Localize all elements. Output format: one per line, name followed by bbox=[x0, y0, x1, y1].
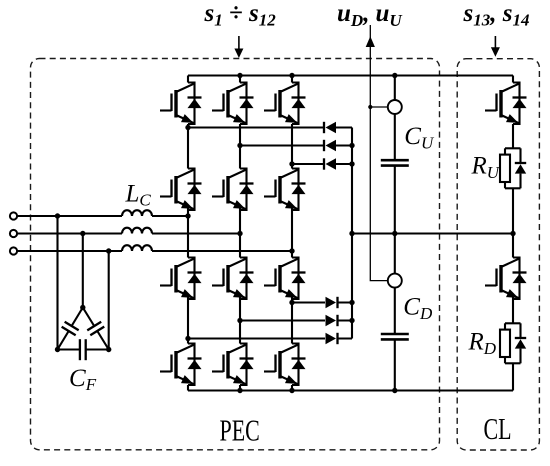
arrow s1-s12 control input bbox=[234, 36, 243, 58]
node phase3 / leg3 bbox=[289, 248, 294, 253]
capacitor C_D bbox=[381, 334, 409, 339]
wire clamp row lower-2 bbox=[240, 319, 352, 321]
node clamp vertical r2 bbox=[349, 143, 354, 148]
node leg3 lower clamp bbox=[289, 300, 294, 305]
clamp diode Dc3 bbox=[324, 158, 336, 169]
node clamp vertical r3 bbox=[349, 161, 354, 166]
wire clamp row upper-3 bbox=[292, 163, 352, 165]
voltmeter probe for u_D bbox=[388, 274, 402, 288]
svg-text:CU: CU bbox=[404, 123, 435, 152]
antiparallel diode of T4 bbox=[188, 184, 202, 195]
node phase1 / leg1 bbox=[185, 213, 190, 218]
svg-text:s1 ÷ s12: s1 ÷ s12 bbox=[204, 0, 277, 30]
clamp diode Dc6 bbox=[326, 333, 338, 344]
wire clamp row upper-1 bbox=[188, 126, 352, 128]
antiparallel diode of T13 bbox=[513, 98, 527, 109]
wire C_F tap phase 3 bbox=[108, 251, 110, 350]
transistor T13 (IGBT) bbox=[485, 83, 520, 125]
wire DC midpoint bus bbox=[352, 232, 513, 234]
antiparallel diode of T5 bbox=[240, 184, 254, 195]
clamp diode Dc5 bbox=[326, 315, 338, 326]
transistor T8 (IGBT) bbox=[212, 258, 247, 300]
wire phase 3 line bbox=[17, 250, 292, 252]
node phase3 / C_F tap bbox=[106, 248, 111, 253]
wire phase 1 line bbox=[17, 215, 188, 217]
wire C_D branch bbox=[394, 234, 396, 391]
input terminal phase 1 bbox=[10, 212, 17, 219]
node clamp vertical r5 bbox=[349, 318, 354, 323]
svg-text:CF: CF bbox=[69, 365, 97, 394]
transistor T5 (IGBT) bbox=[212, 169, 247, 211]
parallel diode of R_U bbox=[515, 148, 526, 188]
node midpoint bus / CL leg bbox=[510, 231, 515, 236]
input terminal phase 3 bbox=[10, 247, 17, 254]
parallel diode of R_D bbox=[515, 323, 526, 363]
antiparallel diode of T12 bbox=[292, 359, 306, 370]
node C_F right corner bbox=[106, 347, 111, 352]
clamp diode Dc1 bbox=[324, 122, 336, 133]
node bottom rail / leg2 bbox=[237, 388, 242, 393]
clamp diode Dc2 bbox=[324, 140, 336, 151]
node measurement tap bbox=[368, 105, 372, 109]
wire clamp-diode vertical bbox=[351, 128, 353, 339]
node top rail / leg3 bbox=[289, 73, 294, 78]
svg-text:RU: RU bbox=[471, 153, 501, 182]
transistor T4 (IGBT) bbox=[160, 169, 195, 211]
clamp diode Dc4 bbox=[326, 297, 338, 308]
wire inverter leg 2 vertical segments bbox=[239, 76, 241, 391]
node leg1 lower clamp bbox=[185, 336, 190, 341]
node C_F apex bbox=[80, 305, 85, 310]
node phase1 / C_F tap bbox=[55, 213, 60, 218]
node bottom rail / leg3 bbox=[289, 388, 294, 393]
svg-text:CL: CL bbox=[484, 411, 512, 445]
node C_F left corner bbox=[55, 347, 60, 352]
node leg2 upper clamp bbox=[237, 143, 242, 148]
inductor L_C phase 2 bbox=[122, 228, 152, 234]
node leg3 upper clamp bbox=[289, 161, 294, 166]
transistor T12 (IGBT) bbox=[264, 344, 299, 386]
wire C_F tap phase 2 bbox=[82, 234, 84, 308]
arrow for u_D u_U output bbox=[366, 36, 375, 47]
antiparallel diode of T10 bbox=[188, 359, 202, 370]
node midpoint bus / cap branch bbox=[392, 231, 397, 236]
wire clamp row lower-3 bbox=[188, 337, 352, 339]
svg-text:RD: RD bbox=[468, 329, 497, 358]
capacitor C_F bottom (delta base) bbox=[58, 339, 109, 360]
node clamp vertical mid bbox=[349, 231, 354, 236]
transistor T11 (IGBT) bbox=[212, 344, 247, 386]
wire clamp row lower-1 bbox=[292, 301, 352, 303]
capacitor C_F left (delta side) bbox=[58, 308, 83, 350]
node phase2 / C_F tap bbox=[80, 231, 85, 236]
antiparallel diode of T11 bbox=[240, 359, 254, 370]
resistor R_D bbox=[500, 323, 521, 363]
wire voltage measurement line bbox=[370, 25, 388, 281]
inductor L_C phase 1 bbox=[122, 210, 152, 216]
svg-text:PEC: PEC bbox=[220, 413, 260, 447]
svg-text:LC: LC bbox=[125, 181, 152, 210]
transistor T2 (IGBT) bbox=[212, 83, 247, 125]
wire DC positive top rail bbox=[188, 74, 513, 76]
wire inverter leg 3 vertical segments bbox=[291, 76, 293, 391]
PEC converter boundary box bbox=[31, 59, 440, 450]
antiparallel diode of T7 bbox=[188, 273, 202, 284]
capacitor C_U bbox=[381, 160, 409, 165]
antiparallel diode of T6 bbox=[292, 184, 306, 195]
antiparallel diode of T14 bbox=[513, 273, 527, 284]
CL clamping-leg boundary box bbox=[457, 59, 539, 450]
wire C_F tap phase 1 bbox=[56, 216, 58, 350]
wire clamp row upper-2 bbox=[240, 144, 352, 146]
capacitor C_F right (delta side) bbox=[83, 308, 109, 350]
input terminal phase 2 bbox=[10, 230, 17, 237]
transistor T9 (IGBT) bbox=[264, 258, 299, 300]
arrow s13-s14 control input bbox=[491, 36, 500, 57]
node phase2 / leg2 bbox=[237, 231, 242, 236]
node leg2 lower clamp bbox=[237, 318, 242, 323]
node bottom rail / C_D bbox=[392, 388, 397, 393]
transistor T14 (IGBT) bbox=[485, 258, 520, 300]
resistor R_U bbox=[500, 148, 521, 188]
wire inverter leg 1 vertical segments bbox=[187, 76, 189, 391]
wire DC negative bottom rail bbox=[188, 389, 513, 391]
antiparallel diode of T8 bbox=[240, 273, 254, 284]
node clamp vertical r4 bbox=[349, 300, 354, 305]
antiparallel diode of T3 bbox=[292, 98, 306, 109]
antiparallel diode of T2 bbox=[240, 98, 254, 109]
svg-text:s13, s14: s13, s14 bbox=[463, 0, 530, 30]
inductor L_C phase 3 bbox=[122, 245, 152, 251]
node leg1 upper clamp bbox=[185, 125, 190, 130]
svg-text:CD: CD bbox=[403, 294, 433, 323]
wire clamping leg vertical segments bbox=[512, 76, 514, 391]
wire C_U branch bbox=[394, 76, 396, 234]
node top rail / leg2 bbox=[237, 73, 242, 78]
transistor T1 (IGBT) bbox=[160, 83, 195, 125]
voltmeter probe for u_U bbox=[388, 100, 402, 114]
transistor T10 (IGBT) bbox=[160, 344, 195, 386]
antiparallel diode of T1 bbox=[188, 98, 202, 109]
node top rail / C_U bbox=[392, 73, 397, 78]
wire phase 2 line bbox=[17, 232, 240, 234]
transistor T7 (IGBT) bbox=[160, 258, 195, 300]
transistor T6 (IGBT) bbox=[264, 169, 299, 211]
antiparallel diode of T9 bbox=[292, 273, 306, 284]
transistor T3 (IGBT) bbox=[264, 83, 299, 125]
